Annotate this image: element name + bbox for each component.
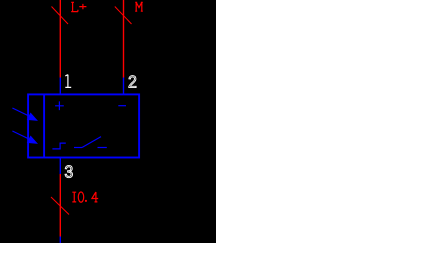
sensor B1 optical compartment divider [43, 94, 45, 159]
light arrow 1 [12, 108, 37, 120]
interruption slash I0.4 [51, 197, 69, 215]
wire bottom continuation stub [59, 237, 61, 244]
net label L+ [71, 2, 86, 11]
light arrow 2 [12, 131, 37, 143]
sensor B1 outline box [28, 94, 139, 157]
contact left lead [74, 147, 82, 149]
wire L+ vertical (net L+) [59, 0, 61, 78]
wire pin2 blue segment [123, 78, 125, 95]
pin number 3 [65, 165, 73, 177]
pin number 1 [65, 75, 71, 88]
pin number 2 [129, 76, 136, 88]
minus sign inside sensor [118, 105, 126, 107]
net label M [135, 2, 143, 11]
interruption slash L+ [52, 7, 69, 25]
proximity step symbol [52, 143, 65, 149]
wire pin1 blue segment [59, 78, 61, 95]
plus sign inside sensor [55, 101, 64, 110]
net label I0.4 [72, 192, 98, 202]
wire I0.4 red segment [59, 174, 61, 237]
interruption slash M [115, 7, 132, 25]
contact lever diagonal [82, 137, 101, 148]
contact right lead [98, 147, 107, 149]
wire pin3 blue segment [59, 158, 61, 175]
wire M vertical (net M) [123, 0, 125, 78]
